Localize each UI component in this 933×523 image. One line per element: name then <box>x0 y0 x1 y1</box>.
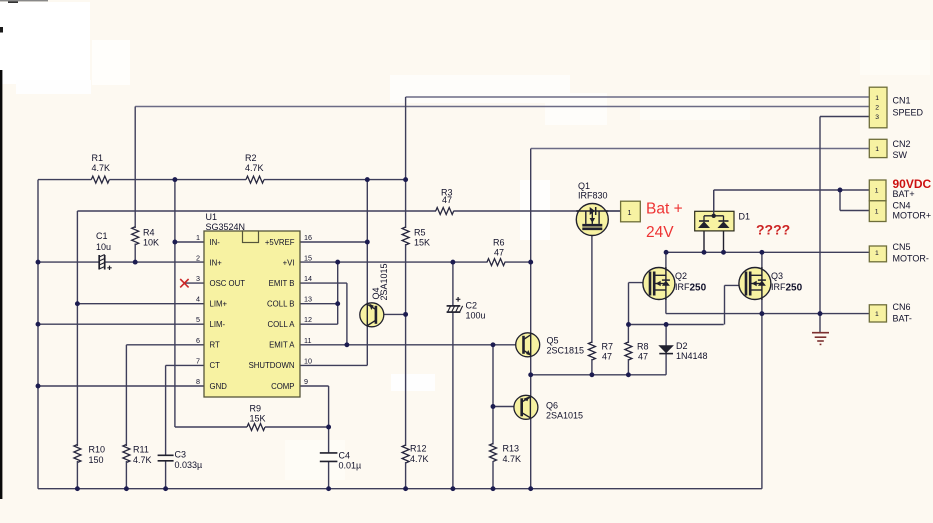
svg-text:CN6: CN6 <box>893 302 911 312</box>
svg-text:1: 1 <box>875 208 879 215</box>
svg-text:RT: RT <box>210 341 220 350</box>
svg-text:1: 1 <box>875 146 879 153</box>
svg-text:CT: CT <box>210 361 221 370</box>
svg-text:100u: 100u <box>466 311 486 321</box>
svg-text:IRF830: IRF830 <box>578 191 608 201</box>
svg-text:MOTOR-: MOTOR- <box>893 254 929 264</box>
svg-text:24V: 24V <box>646 224 674 241</box>
svg-text:1: 1 <box>875 188 879 195</box>
svg-text:0.01µ: 0.01µ <box>339 461 362 471</box>
svg-text:COMP: COMP <box>271 382 294 391</box>
svg-text:R6: R6 <box>493 238 505 248</box>
svg-text:R9: R9 <box>250 404 262 414</box>
svg-text:1N4148: 1N4148 <box>676 351 708 361</box>
svg-text:Q6: Q6 <box>546 401 558 411</box>
svg-text:3: 3 <box>196 274 200 283</box>
svg-text:C1: C1 <box>96 231 108 241</box>
svg-text:SPEED: SPEED <box>893 108 924 118</box>
svg-text:R12: R12 <box>410 444 427 454</box>
svg-text:IRF: IRF <box>675 282 690 292</box>
svg-text:OSC OUT: OSC OUT <box>210 279 246 288</box>
svg-text:2: 2 <box>196 254 200 263</box>
svg-text:MOTOR+: MOTOR+ <box>893 211 932 221</box>
svg-text:R2: R2 <box>245 153 257 163</box>
svg-text:1: 1 <box>875 95 879 102</box>
svg-text:10: 10 <box>304 356 312 365</box>
svg-text:IN+: IN+ <box>210 258 223 267</box>
svg-text:R8: R8 <box>637 342 649 352</box>
svg-text:15K: 15K <box>414 238 430 248</box>
svg-text:11: 11 <box>304 336 311 345</box>
svg-text:C4: C4 <box>339 451 351 461</box>
svg-text:0.033µ: 0.033µ <box>175 460 203 470</box>
svg-text:2SA1015: 2SA1015 <box>379 263 389 300</box>
svg-text:R1: R1 <box>92 153 104 163</box>
svg-text:GND: GND <box>210 382 228 391</box>
svg-text:14: 14 <box>304 274 312 283</box>
svg-text:13: 13 <box>304 295 312 304</box>
svg-text:CN5: CN5 <box>893 242 911 252</box>
svg-text:4: 4 <box>196 295 200 304</box>
svg-text:R4: R4 <box>143 228 155 238</box>
svg-text:4.7K: 4.7K <box>133 455 152 465</box>
svg-text:R10: R10 <box>89 445 106 455</box>
svg-text:47: 47 <box>602 352 612 362</box>
svg-text:2SA1015: 2SA1015 <box>546 411 583 421</box>
svg-text:CN1: CN1 <box>893 96 911 106</box>
svg-text:47: 47 <box>442 195 452 205</box>
svg-text:CN2: CN2 <box>893 139 911 149</box>
svg-text:4.7K: 4.7K <box>503 454 522 464</box>
svg-text:Bat +: Bat + <box>646 201 683 218</box>
svg-text:4.7K: 4.7K <box>410 454 429 464</box>
svg-text:1: 1 <box>875 311 879 318</box>
svg-text:2SC1815: 2SC1815 <box>547 346 585 356</box>
svg-text:SG3524N: SG3524N <box>206 222 246 232</box>
svg-text:16: 16 <box>304 233 312 242</box>
svg-text:5: 5 <box>196 315 200 324</box>
svg-text:9: 9 <box>304 377 308 386</box>
svg-text:COLL B: COLL B <box>267 300 294 309</box>
svg-text:SHUTDOWN: SHUTDOWN <box>249 361 295 370</box>
svg-text:EMIT A: EMIT A <box>269 341 295 350</box>
svg-text:Q3: Q3 <box>771 271 783 281</box>
svg-text:4.7K: 4.7K <box>245 163 264 173</box>
svg-text:IRF: IRF <box>771 282 786 292</box>
svg-text:12: 12 <box>304 315 312 324</box>
svg-text:Q1: Q1 <box>578 181 590 191</box>
svg-text:+5VREF: +5VREF <box>265 238 295 247</box>
svg-text:R11: R11 <box>133 445 149 455</box>
svg-text:7: 7 <box>196 356 200 365</box>
svg-text:2: 2 <box>875 105 879 112</box>
svg-text:+VI: +VI <box>283 258 295 267</box>
svg-text:U1: U1 <box>206 212 218 222</box>
svg-text:Q2: Q2 <box>675 271 687 281</box>
svg-text:15: 15 <box>304 254 312 263</box>
svg-text:250: 250 <box>786 283 803 294</box>
svg-text:3: 3 <box>875 114 879 121</box>
svg-text:EMIT B: EMIT B <box>269 279 295 288</box>
svg-text:1: 1 <box>627 208 631 217</box>
svg-text:15K: 15K <box>250 414 266 424</box>
svg-text:LIM-: LIM- <box>210 320 226 329</box>
svg-text:47: 47 <box>638 352 648 362</box>
svg-text:R13: R13 <box>503 444 520 454</box>
svg-text:LIM+: LIM+ <box>210 300 228 309</box>
svg-text:COLL A: COLL A <box>267 320 295 329</box>
svg-text:1: 1 <box>875 250 879 257</box>
svg-text:250: 250 <box>690 283 707 294</box>
svg-text:D1: D1 <box>739 212 751 222</box>
svg-text:4.7K: 4.7K <box>92 163 111 173</box>
svg-text:IN-: IN- <box>210 238 221 247</box>
svg-text:1: 1 <box>196 233 200 242</box>
svg-text:C2: C2 <box>466 301 478 311</box>
svg-text:BAT-: BAT- <box>893 314 912 324</box>
svg-text:150: 150 <box>89 455 104 465</box>
svg-text:47: 47 <box>494 248 504 258</box>
svg-text:SW: SW <box>893 150 908 160</box>
svg-text:C3: C3 <box>175 450 187 460</box>
svg-text:BAT+: BAT+ <box>893 189 915 199</box>
svg-text:8: 8 <box>196 377 200 386</box>
svg-text:10K: 10K <box>143 238 159 248</box>
svg-text:????: ???? <box>756 222 790 238</box>
svg-text:6: 6 <box>196 336 200 345</box>
svg-text:10u: 10u <box>96 242 111 252</box>
svg-text:Q5: Q5 <box>547 336 559 346</box>
svg-text:D2: D2 <box>676 341 688 351</box>
svg-text:R5: R5 <box>414 228 426 238</box>
svg-text:CN4: CN4 <box>893 200 911 210</box>
svg-text:R7: R7 <box>602 342 614 352</box>
